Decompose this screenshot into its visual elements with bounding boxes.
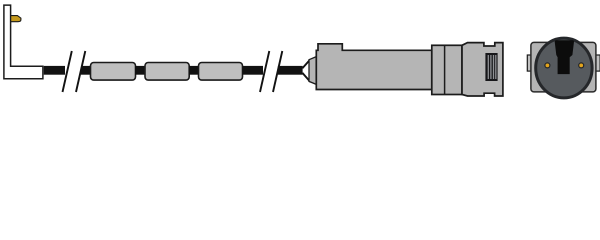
connector head (side view) [462, 43, 503, 96]
grommet sleeve G3 [199, 63, 243, 81]
bracket B1 (L-shaped sensor holder) [4, 5, 43, 79]
wire segment W1 [44, 66, 65, 75]
rib stripes [488, 55, 496, 79]
strain relief flare lines [302, 60, 310, 82]
end-view right tab [596, 55, 600, 71]
wire segment W5 [243, 66, 264, 75]
break mark slash S1b [76, 51, 85, 92]
end-view left tab [527, 55, 532, 71]
wire segment W3 [135, 66, 146, 75]
wire segment W2 [81, 66, 91, 75]
connector body (side view) [316, 44, 432, 90]
grommet sleeve G1 [91, 63, 136, 81]
contact pin P1 (gold) [11, 16, 21, 22]
break mark slash S1a [63, 51, 72, 92]
contact dot left [545, 63, 550, 68]
break mark slash S2a [260, 51, 269, 92]
keyway (black) [555, 40, 574, 74]
end-view socket circle [536, 38, 592, 98]
break mark slash S2b [273, 51, 282, 92]
wire segment W4 [189, 66, 199, 75]
strain relief boot [309, 57, 317, 85]
grommet sleeve G2 [145, 63, 189, 81]
wire segment W6 [278, 66, 303, 75]
neck divider line [444, 45, 446, 94]
contact dot right [579, 63, 584, 68]
ribbed lock area [485, 53, 497, 81]
end-view housing square [531, 42, 596, 92]
connector neck ring [432, 45, 462, 94]
